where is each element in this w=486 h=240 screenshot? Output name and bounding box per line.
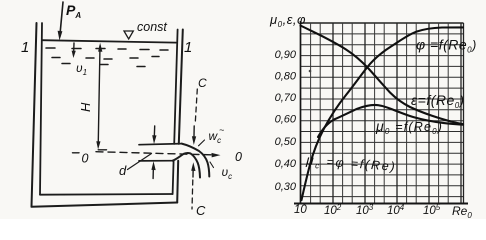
leader line to wc label [199, 140, 205, 146]
velocity arrow v1 [73, 43, 75, 54]
chart x axis [294, 203, 468, 205]
svg-text:0,80: 0,80 [275, 71, 297, 83]
contracted section arrow lower (on C line) [192, 167, 194, 178]
section line C-C upper dashes [195, 89, 197, 124]
axis arrowhead right [212, 153, 221, 158]
svg-text:1: 1 [21, 39, 29, 56]
water dashes row 3 [62, 63, 70, 65]
svg-text:0,70: 0,70 [275, 92, 297, 104]
chart y axis [300, 21, 302, 204]
diameter d arrow lower [152, 166, 154, 179]
tank right wall inner line lower part [173, 161, 174, 194]
tank right wall outer line upper part [179, 30, 183, 144]
level mark nabla [124, 31, 133, 39]
orifice channel top line [139, 144, 182, 145]
axis left tick before O label [73, 152, 80, 154]
chart horizontal grid lines [300, 34, 464, 197]
svg-text:0,60: 0,60 [275, 114, 297, 126]
svg-text:0,90: 0,90 [275, 49, 297, 61]
svg-text:0: 0 [235, 150, 242, 164]
tank right wall inner line upper part [174, 30, 177, 144]
water dashes row 1 [46, 48, 168, 67]
axis O-O dashed centerline [96, 152, 214, 155]
curve phi=f(Re) rising from bottom-left then plateau [302, 27, 464, 200]
svg-text:μ0,ε,φ: μ0,ε,φ [269, 12, 306, 29]
curve eps=f(Re0) descending [301, 26, 464, 125]
section line C-C lower dashes [191, 180, 194, 209]
leader line to vc label [210, 162, 214, 168]
head dimension line H [98, 46, 100, 146]
svg-text:0,40: 0,40 [275, 158, 297, 170]
atmospheric pressure arrow PA [60, 2, 63, 37]
svg-text:const: const [137, 20, 167, 34]
svg-text:1: 1 [184, 39, 192, 56]
tank left wall inner line [40, 23, 42, 195]
svg-text:H: H [78, 102, 93, 112]
tank bottom outer line [32, 203, 178, 207]
d leader line [128, 154, 152, 170]
svg-text:10: 10 [294, 204, 307, 216]
svg-text:C: C [198, 76, 207, 90]
chart decade vertical grid lines [333, 23, 464, 204]
svg-text:~: ~ [219, 125, 224, 135]
jet upper boundary [182, 144, 210, 177]
svg-text:C: C [196, 203, 206, 218]
chart top frame line [300, 22, 464, 24]
contracted section arrow upper (on C line) [193, 126, 195, 141]
tank right wall outer line lower part [177, 161, 178, 203]
curve mu0=f(Re0) branch with maximum [318, 105, 463, 137]
svg-text:d: d [119, 163, 127, 178]
tank bottom inner line [40, 193, 173, 196]
svg-text:0: 0 [82, 152, 89, 166]
water surface line [42, 40, 176, 42]
tank left wall outer line [32, 23, 37, 207]
axis level foot tick at H line bottom [98, 149, 106, 151]
stray pencil dot [309, 70, 312, 73]
orifice channel bottom line [139, 160, 173, 162]
water dashes row 2 [52, 57, 60, 59]
svg-text:0,30: 0,30 [275, 181, 297, 193]
diameter d arrow upper [153, 126, 156, 140]
chart minor vertical grid lines [311, 23, 449, 204]
svg-text:0,50: 0,50 [275, 136, 297, 148]
jet lower boundary [173, 153, 200, 177]
